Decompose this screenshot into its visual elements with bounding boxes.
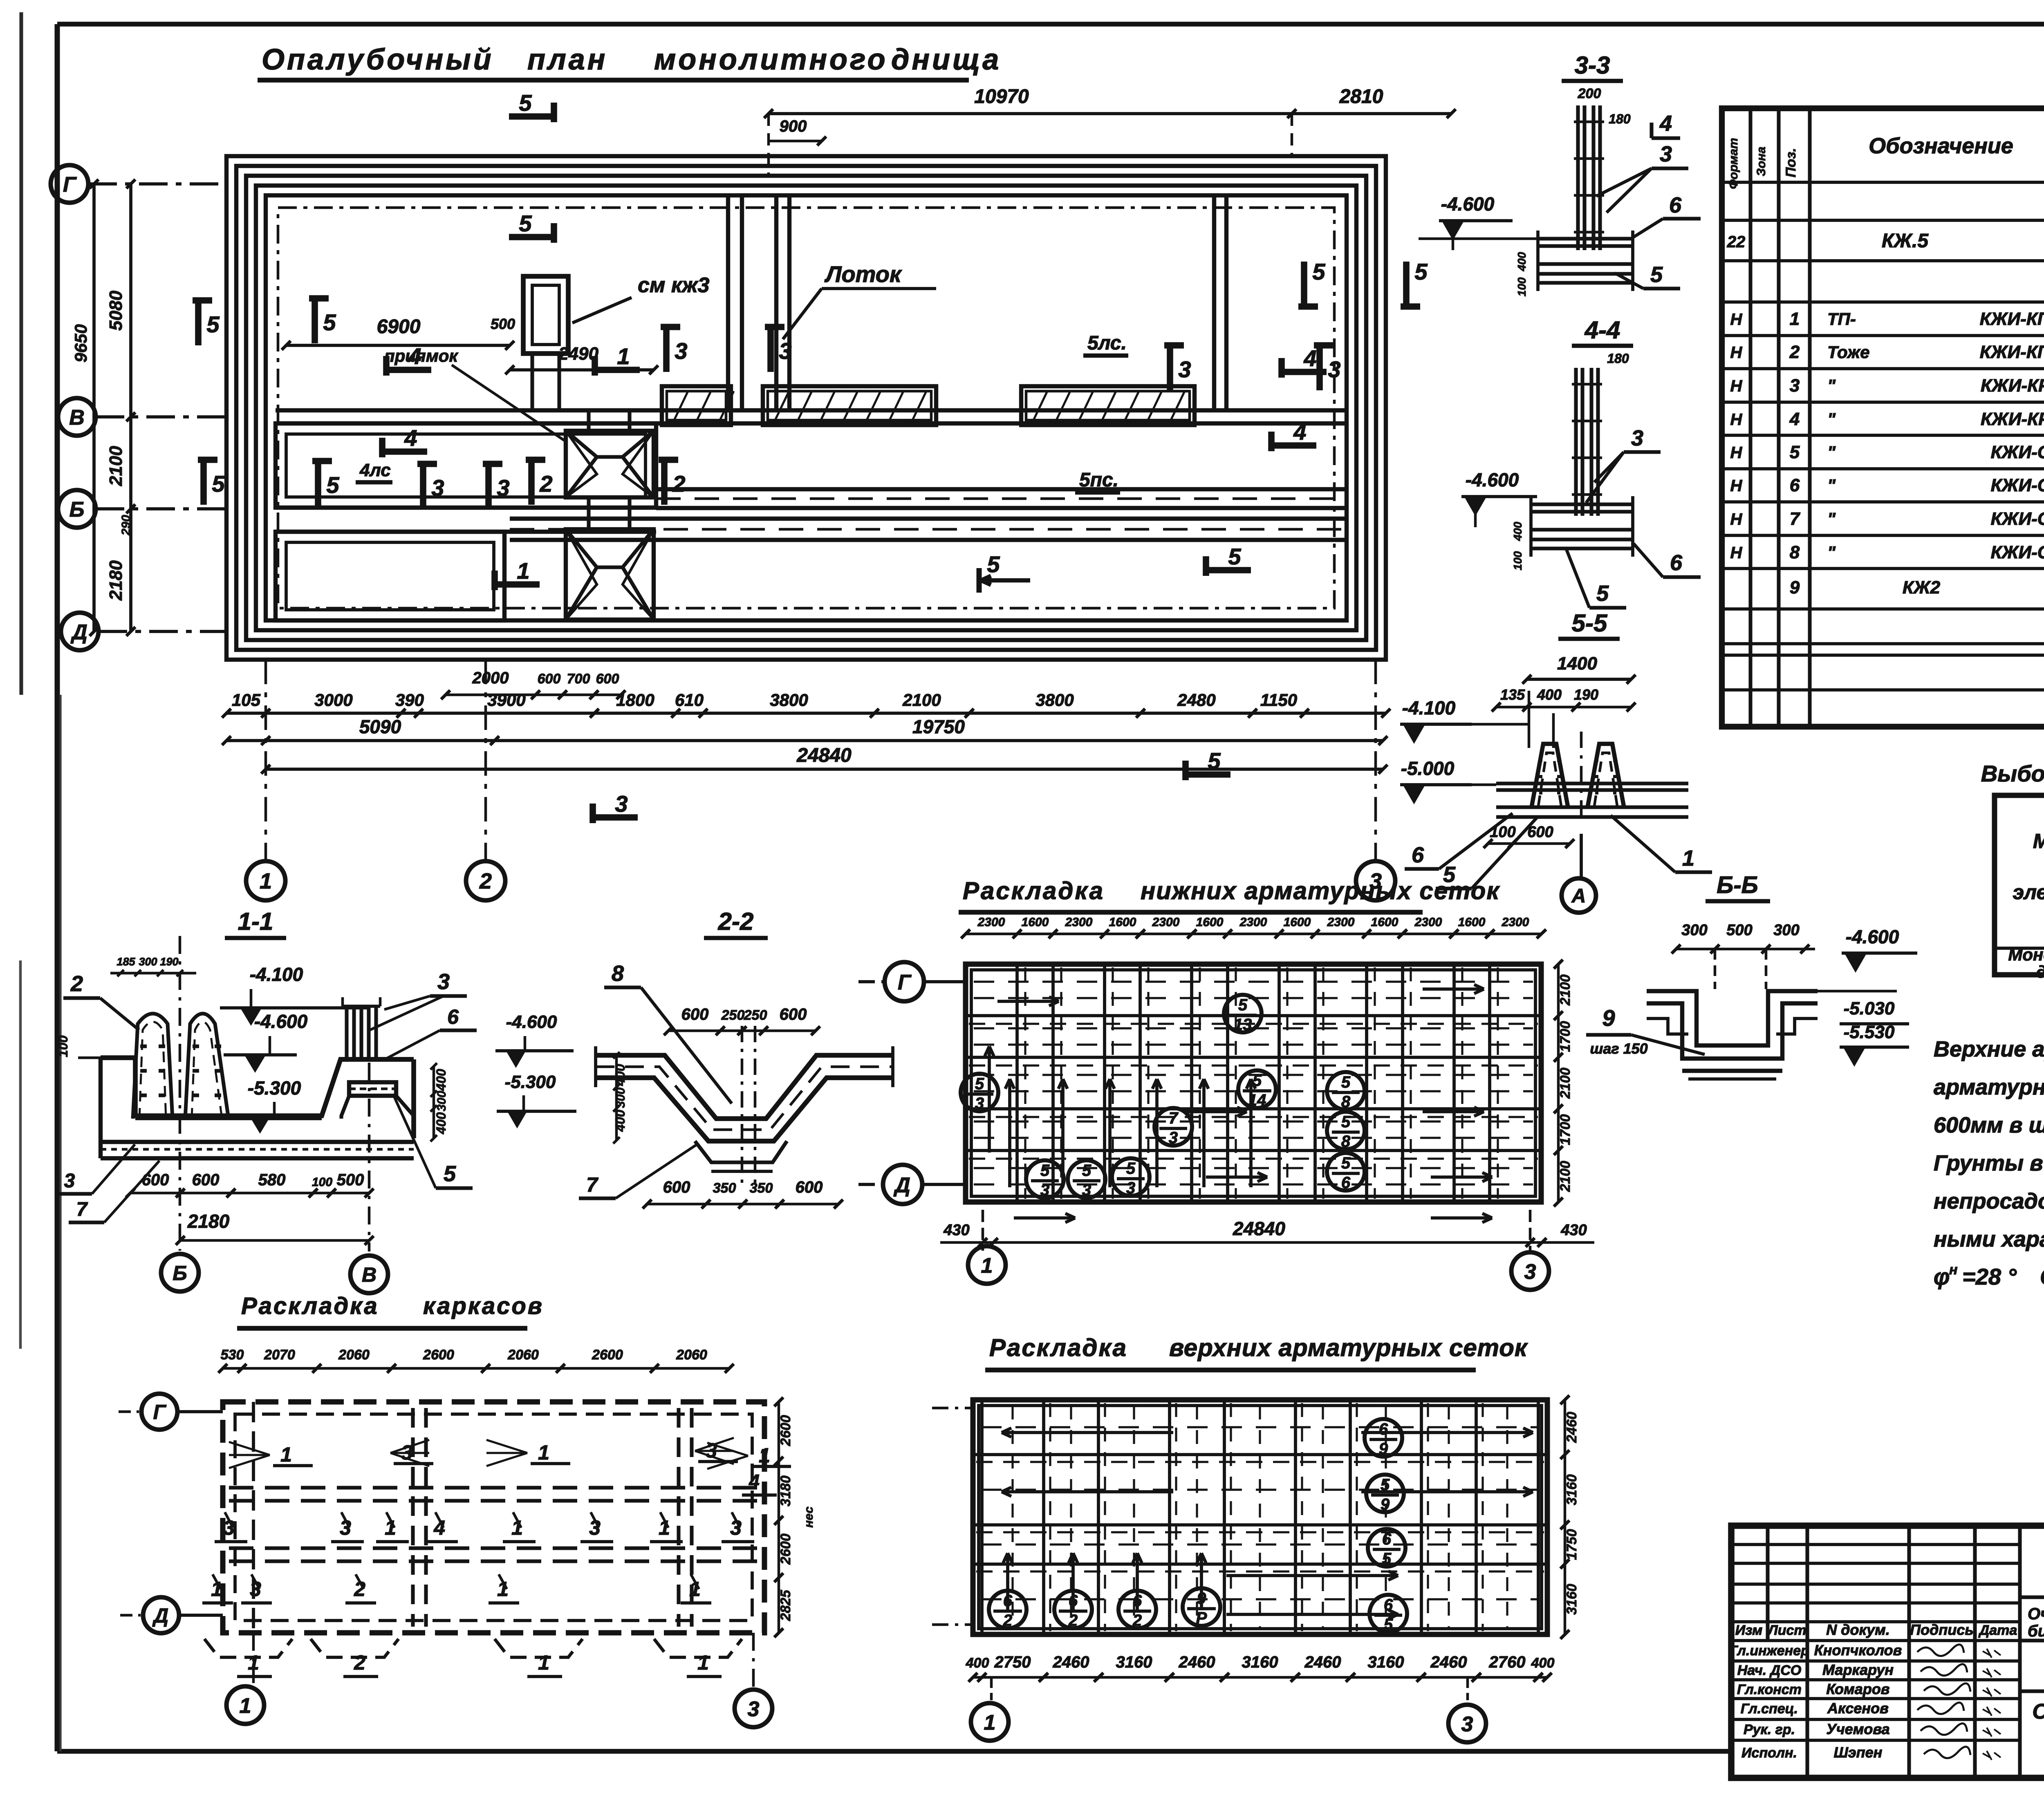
svg-text:": " <box>1827 376 1836 395</box>
svg-text:390: 390 <box>395 690 424 710</box>
svg-text:7: 7 <box>1790 509 1801 529</box>
svg-text:2600: 2600 <box>778 1533 793 1565</box>
svg-text:400: 400 <box>434 1069 448 1091</box>
svg-text:2100: 2100 <box>902 690 941 710</box>
svg-text:5: 5 <box>444 1162 456 1186</box>
svg-text:н: н <box>1949 1262 1958 1278</box>
svg-text:Маркарун: Маркарун <box>1822 1661 1894 1678</box>
svg-text:1600: 1600 <box>1371 916 1399 929</box>
svg-text:700: 700 <box>567 671 590 687</box>
svg-text:400: 400 <box>613 1110 628 1132</box>
svg-text:КЖИ-С4: КЖИ-С4 <box>1991 542 2044 562</box>
svg-text:600: 600 <box>192 1171 220 1189</box>
svg-text:Н: Н <box>1730 411 1743 429</box>
svg-text:5: 5 <box>519 90 532 116</box>
svg-text:КЖИ-КП2: КЖИ-КП2 <box>1980 342 2044 362</box>
svg-text:КЖ2: КЖ2 <box>1903 578 1941 598</box>
svg-text:2600: 2600 <box>592 1347 623 1363</box>
svg-text:5: 5 <box>1228 544 1241 569</box>
svg-text:2300: 2300 <box>1414 916 1442 929</box>
svg-text:2600: 2600 <box>423 1347 454 1363</box>
svg-text:Нач. ДСО: Нач. ДСО <box>1737 1663 1801 1678</box>
svg-text:6: 6 <box>1069 1592 1078 1610</box>
svg-text:": " <box>1827 443 1836 462</box>
svg-text:3800: 3800 <box>770 690 808 710</box>
svg-text:1: 1 <box>759 1444 770 1467</box>
svg-text:Опалубочный: Опалубочный <box>262 43 494 76</box>
svg-text:нес: нес <box>802 1506 816 1528</box>
svg-text:Обозначение: Обозначение <box>1869 134 2013 158</box>
svg-text:5: 5 <box>1341 1073 1351 1091</box>
svg-text:": " <box>1827 509 1836 528</box>
svg-text:Н: Н <box>1730 377 1743 395</box>
svg-text:3: 3 <box>615 791 628 817</box>
svg-text:300: 300 <box>139 956 157 968</box>
svg-text:900: 900 <box>780 117 807 135</box>
svg-text:Н: Н <box>1730 311 1743 329</box>
svg-text:3180: 3180 <box>778 1475 793 1506</box>
svg-text:500: 500 <box>337 1171 364 1189</box>
svg-text:Б-Б: Б-Б <box>1717 872 1758 898</box>
svg-text:5: 5 <box>1312 259 1325 284</box>
svg-text:3000: 3000 <box>314 690 352 710</box>
svg-text:Опалубка и армирование: Опалубка и армирование <box>2032 1700 2044 1724</box>
svg-text:4: 4 <box>1659 111 1672 136</box>
svg-text:Грунты в основаниях н: Грунты в основаниях непучинистые, <box>1934 1151 2044 1175</box>
svg-text:А: А <box>1571 885 1586 907</box>
svg-text:250: 250 <box>721 1007 745 1023</box>
svg-text:2100: 2100 <box>106 446 126 486</box>
svg-text:2060: 2060 <box>507 1347 539 1363</box>
svg-text:3: 3 <box>1524 1260 1536 1284</box>
svg-text:2600: 2600 <box>778 1415 793 1446</box>
svg-text:350: 350 <box>713 1180 736 1196</box>
svg-text:5: 5 <box>323 309 336 335</box>
svg-text:5: 5 <box>1790 442 1800 462</box>
svg-text:200: 200 <box>1578 86 1601 101</box>
svg-text:2000: 2000 <box>472 669 509 687</box>
svg-text:2180: 2180 <box>106 560 126 601</box>
svg-text:Тоже: Тоже <box>1827 342 1869 362</box>
svg-text:2: 2 <box>1068 1612 1078 1630</box>
svg-text:-5.300: -5.300 <box>505 1072 556 1092</box>
svg-text:Шэпен: Шэпен <box>1834 1744 1883 1761</box>
svg-text:Комаров: Комаров <box>1826 1681 1889 1697</box>
svg-text:300: 300 <box>1681 922 1707 939</box>
svg-text:6: 6 <box>1133 1592 1142 1610</box>
svg-text:3-3: 3-3 <box>1575 51 1610 79</box>
svg-text:7: 7 <box>586 1173 598 1196</box>
svg-text:5: 5 <box>1238 996 1248 1014</box>
svg-text:Верхние арматурные сетки: Верхние арматурные сетки укладывать на <box>1934 1037 2044 1061</box>
svg-text:6: 6 <box>1341 1174 1351 1192</box>
svg-text:9: 9 <box>1197 1589 1206 1607</box>
svg-text:6: 6 <box>1379 1420 1388 1438</box>
svg-text:5: 5 <box>1341 1113 1351 1131</box>
svg-text:1600: 1600 <box>1196 916 1224 929</box>
svg-text:5: 5 <box>1040 1162 1050 1180</box>
svg-text:3: 3 <box>497 475 509 501</box>
svg-text:5: 5 <box>519 210 532 236</box>
svg-text:19750: 19750 <box>912 716 965 737</box>
svg-text:2460: 2460 <box>1304 1653 1341 1671</box>
svg-text:24840: 24840 <box>1233 1218 1285 1239</box>
svg-text:3: 3 <box>1040 1181 1049 1199</box>
svg-text:1: 1 <box>697 1651 709 1674</box>
svg-text:7: 7 <box>1169 1109 1179 1127</box>
svg-text:Поз.: Поз. <box>1783 148 1799 177</box>
svg-text:180: 180 <box>1607 351 1629 366</box>
svg-text:9: 9 <box>1381 1495 1390 1513</box>
svg-text:4: 4 <box>1303 345 1316 371</box>
svg-text:Выборка стали на один элем: Выборка стали на один элемент, кг <box>1981 761 2044 786</box>
svg-text:1: 1 <box>984 1711 996 1735</box>
svg-text:Н: Н <box>1730 344 1743 362</box>
svg-text:6: 6 <box>1382 1530 1392 1548</box>
svg-text:1700: 1700 <box>1558 1114 1573 1145</box>
svg-text:Г: Г <box>153 1401 167 1424</box>
svg-text:КЖ.5: КЖ.5 <box>1882 230 1929 252</box>
svg-text:3: 3 <box>431 475 444 501</box>
svg-text:1600: 1600 <box>1458 916 1486 929</box>
svg-text:1: 1 <box>538 1441 549 1464</box>
svg-text:13: 13 <box>1234 1016 1252 1034</box>
svg-text:9: 9 <box>1379 1440 1388 1458</box>
svg-text:2180: 2180 <box>187 1211 230 1232</box>
svg-text:1: 1 <box>1682 846 1694 871</box>
svg-text:580: 580 <box>258 1171 286 1189</box>
svg-text:4: 4 <box>408 343 421 369</box>
svg-text:3900: 3900 <box>487 690 525 710</box>
svg-text:1: 1 <box>280 1443 292 1466</box>
svg-text:2480: 2480 <box>1177 690 1215 710</box>
svg-text:1: 1 <box>538 1651 549 1674</box>
svg-text:каркасов: каркасов <box>423 1293 544 1319</box>
svg-text:ными характеристиками:: ными характеристиками: <box>1934 1227 2044 1251</box>
svg-text:6: 6 <box>1412 843 1424 867</box>
svg-text:=28 °: =28 ° <box>1962 1264 2017 1289</box>
svg-text:2: 2 <box>70 971 83 996</box>
svg-text:5: 5 <box>212 471 225 497</box>
svg-text:5: 5 <box>206 311 220 337</box>
svg-text:Аксенов: Аксенов <box>1827 1700 1889 1717</box>
svg-text:5090: 5090 <box>359 716 401 737</box>
svg-text:Формат: Формат <box>1727 138 1740 189</box>
svg-text:2460: 2460 <box>1564 1412 1580 1443</box>
svg-text:Изм: Изм <box>1735 1623 1763 1638</box>
svg-text:6900: 6900 <box>377 316 421 338</box>
svg-text:3160: 3160 <box>1564 1474 1580 1505</box>
svg-text:1750: 1750 <box>1564 1529 1580 1560</box>
svg-text:2810: 2810 <box>1339 86 1383 107</box>
svg-text:Н: Н <box>1730 544 1743 562</box>
svg-text:1: 1 <box>517 558 529 584</box>
svg-text:14: 14 <box>1248 1091 1266 1109</box>
svg-text:190: 190 <box>1574 686 1598 703</box>
svg-text:-4.100: -4.100 <box>250 964 303 985</box>
svg-text:4-4: 4-4 <box>1585 316 1620 344</box>
svg-text:-5.030: -5.030 <box>1844 998 1895 1018</box>
svg-text:290: 290 <box>119 515 133 536</box>
svg-text:Кнопчколов: Кнопчколов <box>1814 1642 1902 1659</box>
svg-text:2: 2 <box>1132 1612 1142 1630</box>
svg-text:1-1: 1-1 <box>238 908 273 935</box>
svg-text:3: 3 <box>1126 1179 1135 1197</box>
svg-text:400: 400 <box>1531 1655 1555 1671</box>
svg-text:135: 135 <box>1500 686 1525 703</box>
svg-text:190: 190 <box>160 956 178 968</box>
svg-text:6: 6 <box>1669 193 1682 217</box>
svg-text:600: 600 <box>1527 824 1553 841</box>
svg-text:100: 100 <box>312 1175 332 1189</box>
svg-text:5: 5 <box>326 472 339 498</box>
svg-text:1700: 1700 <box>1558 1021 1573 1052</box>
svg-text:9: 9 <box>1602 1005 1615 1031</box>
svg-text:нижних арматурных сеток: нижних арматурных сеток <box>1141 877 1500 904</box>
svg-text:Г: Г <box>63 173 77 197</box>
svg-text:Б: Б <box>173 1262 187 1285</box>
svg-text:3: 3 <box>975 1095 984 1113</box>
svg-text:400: 400 <box>1511 522 1524 541</box>
svg-text:2100: 2100 <box>1558 1161 1573 1192</box>
svg-text:3160: 3160 <box>1242 1653 1278 1671</box>
svg-text:3: 3 <box>64 1170 75 1192</box>
svg-text:днища: днища <box>891 43 1001 76</box>
svg-text:2300: 2300 <box>1327 916 1355 929</box>
svg-text:600: 600 <box>596 671 619 687</box>
svg-text:6: 6 <box>1670 551 1683 575</box>
svg-text:2300: 2300 <box>1065 916 1093 929</box>
svg-text:5: 5 <box>975 1075 984 1093</box>
svg-text:22: 22 <box>1727 233 1746 251</box>
svg-text:250: 250 <box>744 1007 767 1023</box>
svg-text:300: 300 <box>435 1091 448 1111</box>
svg-text:5-5: 5-5 <box>1572 609 1608 637</box>
svg-text:Лоток: Лоток <box>824 261 902 287</box>
svg-text:2300: 2300 <box>977 916 1005 929</box>
svg-text:600: 600 <box>780 1005 807 1023</box>
svg-text:1150: 1150 <box>1260 690 1297 710</box>
svg-text:1: 1 <box>260 869 272 893</box>
svg-text:3: 3 <box>1082 1181 1091 1199</box>
svg-text:-4.100: -4.100 <box>1402 697 1456 719</box>
svg-text:5: 5 <box>1126 1160 1136 1177</box>
svg-text:КЖИ-С2: КЖИ-С2 <box>1991 475 2044 495</box>
svg-text:600: 600 <box>663 1178 690 1196</box>
svg-text:Исполн.: Исполн. <box>1741 1745 1797 1761</box>
svg-text:5: 5 <box>1341 1154 1351 1172</box>
svg-text:600: 600 <box>796 1178 823 1196</box>
svg-text:Г: Г <box>898 971 912 994</box>
svg-text:5лс.: 5лс. <box>1087 332 1127 354</box>
svg-text:4: 4 <box>404 425 417 451</box>
svg-text:5: 5 <box>1414 259 1428 284</box>
svg-text:3: 3 <box>1461 1712 1473 1736</box>
svg-text:8: 8 <box>1341 1133 1351 1151</box>
svg-text:3160: 3160 <box>1116 1653 1152 1671</box>
svg-text:185: 185 <box>117 956 135 968</box>
svg-text:В: В <box>362 1263 377 1286</box>
svg-text:элемента: элемента <box>2013 881 2044 904</box>
svg-text:2060: 2060 <box>676 1347 707 1363</box>
svg-text:1: 1 <box>617 343 630 369</box>
svg-text:1: 1 <box>240 1694 251 1718</box>
svg-text:5: 5 <box>1384 1616 1393 1634</box>
svg-text:Гл.спец.: Гл.спец. <box>1741 1701 1798 1717</box>
svg-text:": " <box>1827 476 1836 495</box>
svg-text:2300: 2300 <box>1152 916 1180 929</box>
svg-text:монолитного: монолитного <box>654 43 888 76</box>
svg-text:Р: Р <box>1196 1609 1207 1627</box>
svg-text:приямок: приямок <box>384 346 458 365</box>
svg-text:8: 8 <box>1790 542 1800 562</box>
svg-text:КЖИ-С1: КЖИ-С1 <box>1991 442 2044 462</box>
svg-text:2760: 2760 <box>1489 1653 1526 1671</box>
svg-text:ТП-: ТП- <box>1827 309 1856 329</box>
svg-text:Н: Н <box>1730 444 1743 462</box>
svg-text:3160: 3160 <box>1368 1653 1404 1671</box>
svg-text:днище: днище <box>2036 962 2044 981</box>
svg-text:4: 4 <box>1789 409 1800 429</box>
svg-text:3: 3 <box>779 338 791 364</box>
svg-text:2: 2 <box>539 471 552 497</box>
svg-text:-5.000: -5.000 <box>1401 758 1455 779</box>
svg-text:8: 8 <box>612 961 624 986</box>
svg-text:5080: 5080 <box>106 291 126 331</box>
svg-text:9650: 9650 <box>71 324 90 362</box>
svg-text:Н: Н <box>1730 510 1743 528</box>
svg-text:-4.600: -4.600 <box>1846 926 1899 947</box>
svg-text:600: 600 <box>681 1005 709 1023</box>
svg-text:100: 100 <box>1511 551 1524 570</box>
svg-text:N докум.: N докум. <box>1826 1621 1890 1638</box>
svg-text:600мм в шахматном поря: 600мм в шахматном порядке к сетке <box>1934 1113 2044 1137</box>
svg-text:Дата: Дата <box>1978 1623 2017 1638</box>
svg-text:2460: 2460 <box>1179 1653 1215 1671</box>
svg-text:6: 6 <box>447 1005 459 1028</box>
svg-text:5: 5 <box>1381 1476 1390 1494</box>
svg-text:Д: Д <box>152 1604 168 1627</box>
svg-text:1: 1 <box>981 1254 993 1278</box>
svg-text:3: 3 <box>1790 376 1800 396</box>
svg-text:см кж3: см кж3 <box>638 273 709 297</box>
svg-text:-4.600: -4.600 <box>506 1012 557 1032</box>
svg-text:2100: 2100 <box>1558 974 1573 1006</box>
svg-text:Лист: Лист <box>1767 1623 1806 1638</box>
svg-text:3: 3 <box>1631 426 1643 450</box>
svg-text:400: 400 <box>966 1655 989 1671</box>
svg-text:план: план <box>527 43 607 76</box>
svg-text:2300: 2300 <box>1502 916 1529 929</box>
svg-text:5: 5 <box>1253 1072 1262 1090</box>
svg-text:3: 3 <box>437 969 450 994</box>
svg-text:1: 1 <box>1790 309 1800 329</box>
svg-text:600: 600 <box>538 671 561 687</box>
svg-text:3: 3 <box>1178 356 1191 382</box>
svg-text:Д: Д <box>893 1173 910 1197</box>
svg-text:Д: Д <box>70 620 87 644</box>
svg-text:Марка: Марка <box>2033 830 2044 853</box>
svg-text:430: 430 <box>1560 1222 1587 1239</box>
svg-text:2100: 2100 <box>1558 1068 1573 1099</box>
svg-text:φ: φ <box>1934 1264 1950 1289</box>
svg-text:3: 3 <box>748 1697 760 1721</box>
svg-text:3800: 3800 <box>1035 690 1074 710</box>
svg-text:-4.600: -4.600 <box>254 1011 308 1032</box>
svg-text:1600: 1600 <box>1022 916 1049 929</box>
svg-text:шаг 150: шаг 150 <box>1590 1040 1647 1057</box>
svg-text:Очистные сооружения для сточны: Очистные сооружения для сточных вод от м… <box>2028 1605 2044 1623</box>
svg-text:8: 8 <box>1341 1093 1351 1111</box>
svg-text:-5.300: -5.300 <box>248 1077 301 1099</box>
svg-text:2825: 2825 <box>778 1589 793 1621</box>
svg-text:Гл.конст: Гл.конст <box>1737 1682 1802 1697</box>
svg-text:350: 350 <box>750 1180 773 1196</box>
svg-text:2750: 2750 <box>994 1653 1031 1671</box>
svg-text:Зона: Зона <box>1755 147 1768 176</box>
svg-text:5пс.: 5пс. <box>1079 469 1118 491</box>
svg-text:Учемова: Учемова <box>1826 1721 1889 1737</box>
svg-text:10970: 10970 <box>974 86 1029 107</box>
svg-text:4: 4 <box>1293 419 1306 445</box>
svg-text:400: 400 <box>1537 686 1562 703</box>
svg-text:400: 400 <box>1515 252 1528 271</box>
svg-text:В: В <box>69 406 85 430</box>
svg-text:2460: 2460 <box>1053 1653 1089 1671</box>
svg-text:2460: 2460 <box>1430 1653 1467 1671</box>
svg-text:7: 7 <box>76 1199 88 1220</box>
svg-text:Н: Н <box>1730 477 1743 495</box>
svg-text:Раскладка: Раскладка <box>963 877 1105 904</box>
svg-text:КЖИ-КП1: КЖИ-КП1 <box>1980 309 2044 329</box>
svg-text:билей с расходом воды 20л/сек: билей с расходом воды 20л/сек при оборот… <box>2028 1622 2044 1640</box>
svg-text:1400: 1400 <box>1557 654 1597 674</box>
svg-text:С: С <box>2040 1264 2044 1289</box>
svg-text:600: 600 <box>142 1171 169 1189</box>
svg-text:100: 100 <box>1515 277 1528 296</box>
svg-text:5: 5 <box>987 551 1000 577</box>
svg-text:100: 100 <box>56 1035 70 1057</box>
svg-text:КЖИ-С3: КЖИ-С3 <box>1991 509 2044 529</box>
svg-text:2: 2 <box>1003 1612 1012 1630</box>
svg-text:2: 2 <box>1789 342 1800 362</box>
svg-text:-5.530: -5.530 <box>1844 1022 1895 1042</box>
svg-text:5: 5 <box>1082 1162 1091 1180</box>
svg-text:530: 530 <box>221 1347 244 1363</box>
svg-text:5: 5 <box>1650 262 1663 287</box>
svg-text:24840: 24840 <box>796 745 852 766</box>
svg-text:КЖИ-КР2: КЖИ-КР2 <box>1981 409 2044 429</box>
svg-text:2300: 2300 <box>1239 916 1267 929</box>
svg-text:-4.600: -4.600 <box>1441 193 1495 215</box>
svg-text:2-2: 2-2 <box>718 908 754 935</box>
svg-text:": " <box>1827 410 1836 429</box>
svg-text:1600: 1600 <box>1284 916 1311 929</box>
svg-text:Б: Б <box>69 498 85 522</box>
svg-text:9: 9 <box>1790 578 1800 598</box>
svg-text:3: 3 <box>1328 356 1340 382</box>
svg-text:2060: 2060 <box>338 1347 370 1363</box>
svg-text:непросадочные со следующими: непросадочные со следующими норматив- <box>1934 1189 2044 1213</box>
svg-text:3: 3 <box>1660 142 1672 166</box>
svg-text:верхних арматурных сеток: верхних арматурных сеток <box>1169 1334 1528 1361</box>
svg-text:3: 3 <box>675 338 687 364</box>
svg-text:500: 500 <box>1726 922 1752 939</box>
svg-text:2: 2 <box>672 471 685 497</box>
svg-text:арматурные штыри приварива: арматурные штыри привариваемые с шагом <box>1934 1075 2044 1099</box>
svg-text:1600: 1600 <box>1109 916 1136 929</box>
svg-text:3160: 3160 <box>1564 1584 1580 1615</box>
